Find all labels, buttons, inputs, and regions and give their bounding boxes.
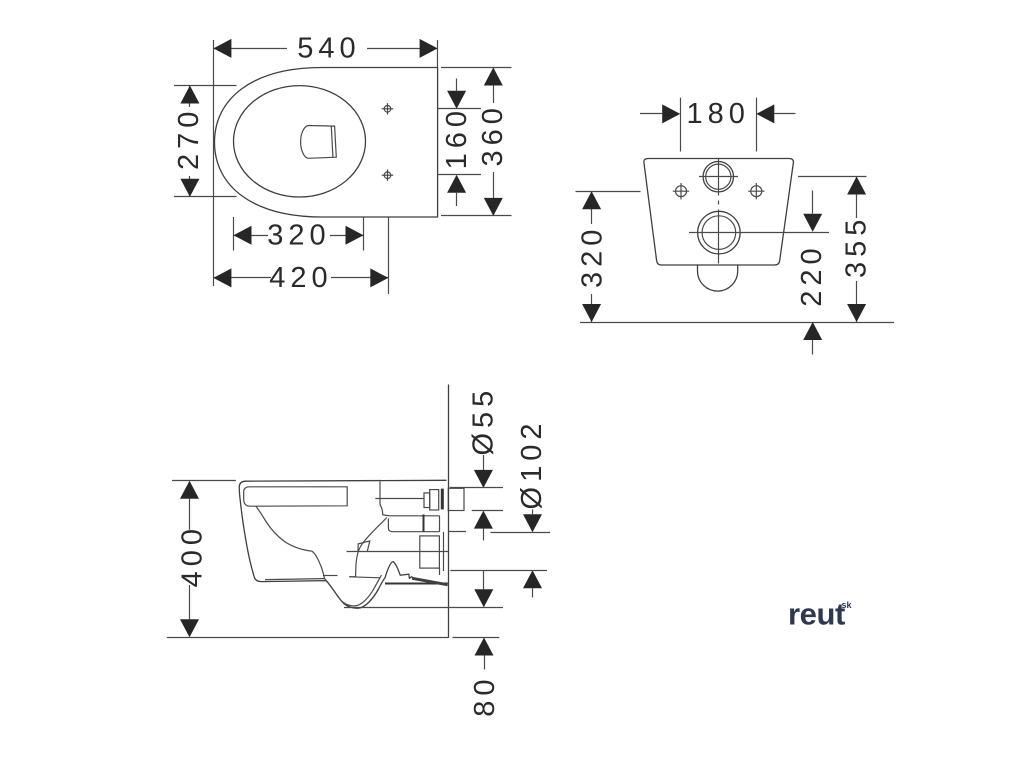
floor extension right of wall <box>453 637 500 639</box>
side view: inlet pipe centerline <box>375 498 424 500</box>
svg-text:Ø55: Ø55 <box>467 386 499 456</box>
rear view: outlet crosshair horizontal / 220 extension <box>689 232 829 234</box>
svg-text:320: 320 <box>576 225 608 288</box>
side view: back sweep curve <box>349 518 387 577</box>
dim 400 line lower segment <box>189 585 191 619</box>
side view: inlet channel top line <box>383 514 440 517</box>
dim 540 line right segment <box>367 48 438 50</box>
dim 540 arrow right <box>420 39 438 58</box>
rear view: mounting hole crosshair 2 <box>748 183 764 199</box>
dim 360 line upper segment <box>493 68 495 104</box>
dim 160 extension line lower <box>438 174 481 176</box>
dim 360 line lower segment <box>493 172 495 216</box>
dim 270 line lower segment <box>189 176 191 197</box>
dim 320 top-view arrow left <box>234 226 252 245</box>
svg-text:reut: reut <box>788 597 845 632</box>
dim 270 extension line bottom <box>174 196 237 198</box>
dim 160 extension line upper <box>438 108 481 110</box>
rear view: inlet circle outer <box>703 162 733 192</box>
dim 360 extension line top <box>441 67 512 69</box>
svg-text:sk: sk <box>842 600 853 610</box>
dim 355 line upper segment <box>856 177 858 219</box>
dim 540 line left segment <box>213 48 287 50</box>
top view: toilet body outline <box>215 68 438 218</box>
svg-text:180: 180 <box>687 98 750 130</box>
side view: inlet pipe gasket dark band <box>441 489 444 510</box>
dim 360 arrow up <box>484 68 503 86</box>
side view: trap inner curve <box>325 575 382 606</box>
side view: bottom rim inner line <box>265 579 325 580</box>
svg-text:270: 270 <box>173 107 205 170</box>
rear view: toilet body outline <box>644 159 794 266</box>
side view: inlet channel notch <box>388 519 439 532</box>
side view: vertical line near wall <box>443 532 445 571</box>
dim 355 arrow up <box>847 177 866 195</box>
level line d55 bottom <box>472 510 503 512</box>
dim 270 arrow up <box>180 86 199 104</box>
dim 270 line upper segment <box>189 86 191 108</box>
dim d55 arrow down <box>474 470 493 488</box>
top view: drain hole shape <box>301 126 337 159</box>
side view: inlet pipe stub through wall <box>448 488 464 510</box>
dim 80 arrow down <box>474 589 493 607</box>
dim 220 arrow down <box>803 214 822 232</box>
svg-text:320: 320 <box>267 220 330 252</box>
side view: trap water line to hump <box>349 577 380 578</box>
side view: spout wedge <box>358 541 370 551</box>
dim 400 line upper segment <box>189 499 191 530</box>
dim 540 extension line right vertical <box>437 40 439 68</box>
dim d102 arrow up <box>523 570 542 588</box>
rear view: inlet circle inner <box>706 164 731 189</box>
side view: bowl rim inner line diving into trap <box>256 506 325 578</box>
side view: wall line <box>448 385 450 637</box>
rear view: inlet crosshair horizontal <box>699 176 738 178</box>
dim d102 tail below <box>532 588 534 597</box>
dim 400 arrow down <box>180 619 199 637</box>
dim 80 arrow up below floor <box>475 638 494 656</box>
dim 320 rear line upper segment <box>591 191 593 224</box>
svg-text:400: 400 <box>176 524 208 587</box>
dim 220 tail below floor <box>812 340 814 355</box>
dim 180 tail left <box>640 113 662 115</box>
side view: sloped mounting bar <box>412 577 448 586</box>
side view: box right edge extension <box>439 568 441 575</box>
dim 420 line left segment <box>213 277 271 279</box>
side view: water level tick <box>323 575 338 577</box>
dim d55 tail below <box>483 529 485 541</box>
top view: inner bowl ellipse <box>234 86 366 197</box>
dim d55 tail above <box>483 455 485 470</box>
floor line rear view <box>580 322 894 324</box>
dim 180 arrow pointing right <box>662 104 680 123</box>
dim 360 extension line bottom <box>441 215 512 217</box>
side view bottom line <box>167 637 448 639</box>
rear view: outlet circle outer <box>698 211 741 254</box>
rear view: vertical centerline lower <box>718 210 720 264</box>
svg-text:160: 160 <box>441 106 473 169</box>
dim 420 arrow right <box>370 268 388 287</box>
dim 420 arrow left <box>213 268 231 287</box>
dim 320 rear line lower segment <box>591 294 593 322</box>
dim 320 rear extension top <box>576 191 641 193</box>
side view: channel right edge vertical <box>439 516 441 532</box>
rear view: vertical centerline upper <box>718 158 720 196</box>
level line d55 top <box>450 487 503 489</box>
svg-text:360: 360 <box>477 103 509 166</box>
side view: outlet stub top line right of wall <box>448 531 466 533</box>
top view: mounting hole crosshair 2 <box>382 170 393 181</box>
level line d102 top <box>491 532 551 534</box>
svg-text:Ø102: Ø102 <box>516 419 548 510</box>
dim 320 top-view arrow right <box>346 226 364 245</box>
dim 160 arrow up <box>447 175 466 193</box>
rear view: outlet circle inner <box>702 216 736 250</box>
rear view: mounting hole crosshair 1 <box>673 183 689 199</box>
dim 320 top-view extension right vertical <box>363 217 365 251</box>
dim 160 tail above <box>456 79 458 91</box>
dim 320 top-view line right segment <box>330 235 364 237</box>
dim 80 tail above <box>483 570 485 589</box>
dim d55 arrow up <box>474 511 493 529</box>
dim 160 tail below <box>456 193 458 206</box>
dim d102 arrow down <box>523 514 542 532</box>
svg-text:355: 355 <box>841 215 873 278</box>
side view: channel divider thick vertical <box>423 514 425 531</box>
side view: inlet pipe flange B <box>430 490 439 510</box>
side view: back face vertical <box>380 482 383 515</box>
dim 160 arrow down <box>447 91 466 109</box>
dim 355 line lower segment <box>856 281 858 322</box>
side view: inlet pipe flange A <box>424 493 430 508</box>
dim 320 rear arrow down <box>582 304 601 322</box>
dim 420 line right segment <box>331 277 388 279</box>
dim 220 tail above <box>812 191 814 214</box>
level line d102 bottom <box>450 570 547 572</box>
dim 360 arrow down <box>484 198 503 216</box>
dim 540 extension line left vertical <box>213 40 215 286</box>
dim 320 top-view extension left vertical <box>233 217 235 251</box>
dim 320 top-view line left segment <box>234 235 269 237</box>
side view: outer profile top edge and front and bottom <box>239 480 446 608</box>
dim 270 arrow down <box>180 179 199 197</box>
side view: outlet connector box <box>420 536 440 568</box>
side view: seat slot bar <box>244 487 348 506</box>
rear view: vertical centerline dash <box>718 201 720 205</box>
svg-text:80: 80 <box>469 674 501 716</box>
level line toilet underside <box>344 607 503 609</box>
dim 355 extension top <box>798 176 867 178</box>
dim 220 arrow up below floor <box>803 322 822 340</box>
dim 180 extension left vertical <box>680 98 682 152</box>
dim 420 extension right vertical <box>388 217 390 294</box>
svg-text:220: 220 <box>796 243 828 306</box>
dim 400 arrow up <box>180 481 199 499</box>
dim 320 rear arrow up <box>582 191 601 209</box>
side view: outlet centerline horizontal <box>347 551 449 553</box>
svg-text:420: 420 <box>269 262 332 294</box>
dim 540 arrow left <box>213 39 231 58</box>
dim d102 tail above <box>532 510 534 515</box>
rear view: outlet bump <box>698 265 738 291</box>
svg-text:540: 540 <box>297 32 360 64</box>
dim 80 tail below <box>484 656 486 670</box>
side view: bottom thick line <box>385 583 448 585</box>
top view: mounting hole crosshair 1 <box>382 103 393 114</box>
dim 180 arrow pointing left <box>756 104 774 123</box>
top view: drain hole inner line <box>331 126 333 157</box>
dim 355 arrow down <box>847 304 866 322</box>
dim 180 extension right vertical <box>756 98 758 152</box>
dim 180 tail right <box>774 113 795 115</box>
dim 270 extension line top <box>174 85 237 87</box>
dim 400 extension top <box>172 480 236 482</box>
